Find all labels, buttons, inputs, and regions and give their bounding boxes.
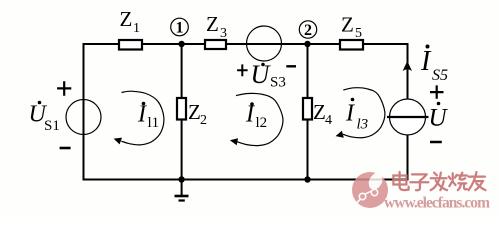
svg-text:I: I [137,102,147,128]
svg-text:Z: Z [313,100,326,124]
junction node 2 top [304,41,310,47]
char you [469,172,486,190]
junction node 1 top [178,41,184,47]
svg-text:I: I [345,101,355,127]
char zi [410,174,428,190]
svg-text:3: 3 [220,26,227,41]
impedance Z3 [205,40,226,49]
char fa [431,173,447,191]
svg-text:U: U [429,105,449,132]
wire left vertical [83,43,85,181]
svg-text:4: 4 [325,113,332,128]
junction node 1 bottom [178,176,184,182]
svg-text:Z: Z [341,13,354,37]
mesh current I_l2 arc [236,93,283,145]
svg-text:l3: l3 [357,117,369,133]
current arrow I_S5 on right wire [403,61,412,71]
svg-text:I: I [420,46,432,77]
svg-text:U: U [251,60,272,89]
char shao [449,173,467,191]
wire node 1 branch vertical [181,44,183,180]
wire node 2 branch vertical [307,44,309,180]
label + of U_S1 [57,81,71,96]
current source symbol [390,99,426,135]
svg-text:l1: l1 [148,115,160,131]
impedance Z2 [177,98,186,120]
mesh current I_l3 arc [343,88,385,138]
svg-text:I: I [245,102,255,128]
svg-text:2: 2 [304,22,312,39]
wire top rail [84,43,408,45]
junction node 2 bottom [304,176,310,182]
label + of U [430,85,444,98]
svg-text:S1: S1 [44,118,60,134]
svg-text:1: 1 [133,21,140,36]
impedance Z4 [303,98,312,120]
svg-text:Z: Z [206,12,219,36]
svg-text:S3: S3 [270,75,286,91]
svg-text:1: 1 [176,20,184,37]
mesh current I_l1 arc [121,91,164,145]
node 1 [171,18,189,36]
svg-text:l2: l2 [256,115,268,131]
label + of U_S3 [237,64,248,76]
char dian [393,172,408,190]
svg-text:www.elecfans.com: www.elecfans.com [384,195,490,212]
watermark logo [352,172,388,208]
svg-text:5: 5 [355,26,362,41]
svg-text:S5: S5 [432,67,448,84]
wire right vertical [407,43,409,181]
svg-text:Z: Z [188,100,201,124]
wire bottom [83,179,409,181]
voltage source U_S1 [66,100,101,135]
label - of U [430,141,442,144]
svg-text:2: 2 [200,113,207,128]
watermark text dianzifashaoyou [393,172,485,190]
svg-text:Z: Z [120,7,133,31]
label - of U_S3 [286,65,296,67]
ground [181,180,183,196]
impedance Z5 [340,40,363,50]
voltage source U_S3 [247,26,282,61]
impedance Z1 [119,40,142,50]
label - of U_S1 [60,147,71,150]
node 2 [299,21,316,38]
